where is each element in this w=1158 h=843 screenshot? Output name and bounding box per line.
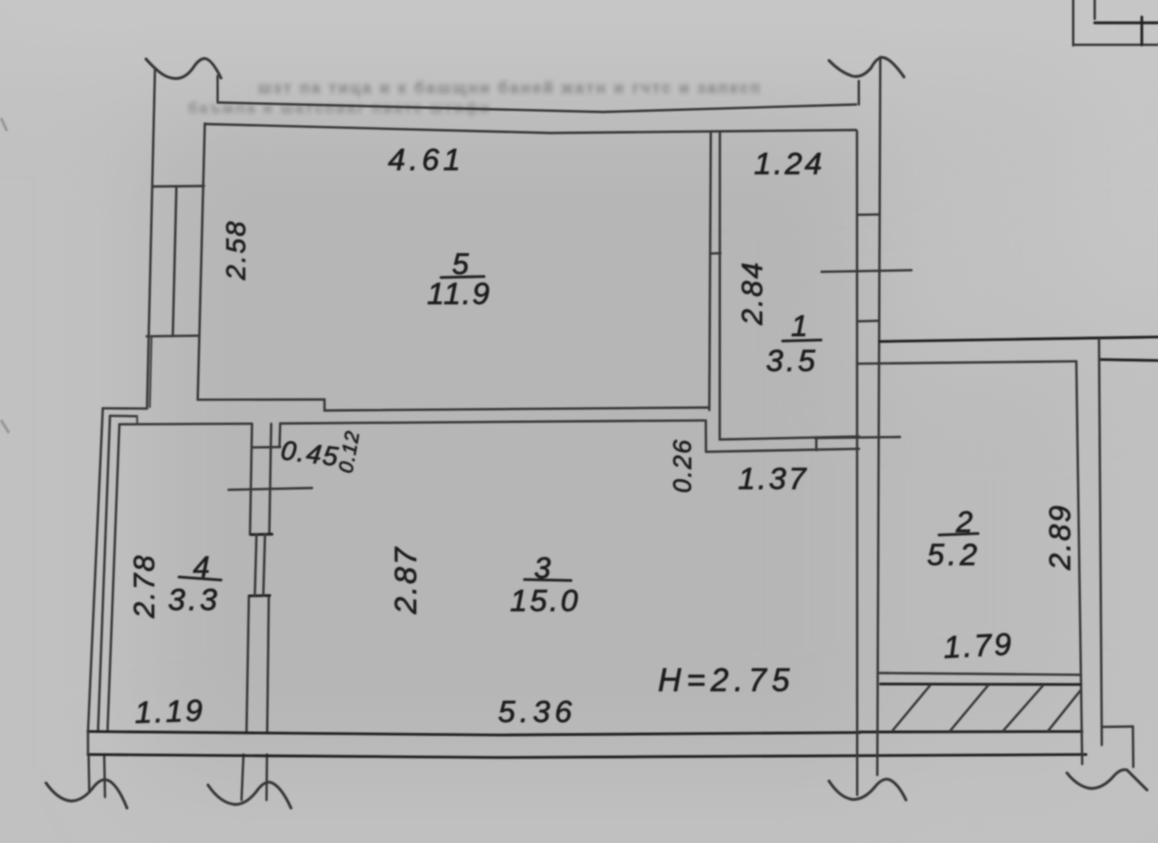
svg-text:3.3: 3.3: [168, 582, 220, 617]
step connector: [136, 416, 138, 424]
svg-text:4.61: 4.61: [388, 142, 464, 177]
second wall line below window: [150, 336, 152, 407]
bottom-mid break squiggle: [208, 782, 291, 808]
top-left break squiggle: [146, 59, 221, 79]
svg-text:2.89: 2.89: [1044, 504, 1077, 571]
step line h2: [110, 415, 137, 418]
room1 bottom wall lower line: [706, 449, 859, 452]
neighbour corner dark tick: [1140, 17, 1143, 45]
hatch diagonal 2: [950, 686, 988, 732]
corridor lower wall left part: [858, 361, 1076, 363]
room4 left middle wall: [98, 416, 110, 732]
svg-text:2.78: 2.78: [129, 554, 161, 619]
neighbour corner line h1: [1095, 21, 1158, 24]
wall room4|room3 left line lower part: [247, 596, 249, 732]
window bottom tick: [147, 335, 200, 338]
corridor upper wall: [880, 337, 1158, 342]
step vertical in bottom wall of room 5: [323, 400, 325, 411]
room 3 underline: [525, 580, 572, 581]
edge smudge mid-left: [1, 420, 9, 433]
wall room4|room3 right line upper part: [269, 424, 271, 535]
svg-text:5.2: 5.2: [927, 537, 981, 572]
room2 right inner wall: [1076, 361, 1082, 764]
left inner wall (room 5): [198, 124, 205, 400]
neighbour corner line v1: [1072, 0, 1074, 46]
right step v: [1132, 727, 1135, 768]
top-right break squiggle: [829, 57, 904, 77]
wall room5|room1 left line: [709, 133, 711, 411]
door line crossing right wall upper: [822, 270, 912, 272]
right wall window tick a: [858, 213, 879, 216]
room4 left outer wall: [88, 408, 103, 731]
svg-text:H=2.75: H=2.75: [658, 662, 795, 698]
wall room4|room3 right line lower part: [267, 596, 269, 732]
door tick lower: [250, 594, 270, 597]
room 5 underline: [441, 277, 484, 278]
divider stub b below bottom wall: [265, 755, 268, 801]
svg-text:2.84: 2.84: [737, 261, 769, 326]
niche vertical: [278, 424, 281, 448]
room4 wall stub a below bottom wall: [87, 755, 90, 793]
svg-text:0.26: 0.26: [669, 438, 697, 493]
room 2 underline: [939, 534, 978, 536]
bottom-left break squiggle: [46, 780, 127, 808]
svg-text:1.24: 1.24: [754, 146, 824, 181]
right wall top stub: [858, 81, 860, 105]
divider stub a below bottom wall: [242, 755, 244, 801]
svg-text:5.36: 5.36: [498, 694, 576, 729]
svg-text:11.9: 11.9: [427, 276, 491, 311]
room 5 bottom wall upper line: [198, 398, 325, 401]
svg-text:шзт па тица и к башщни баней ж: шзт па тица и к башщни баней жатн и гчтс…: [258, 80, 762, 97]
top inner wall (rooms 5 and 1): [205, 124, 856, 133]
svg-text:15.0: 15.0: [510, 583, 580, 618]
door frame line a: [255, 534, 257, 595]
svg-text:1: 1: [791, 310, 808, 343]
room 4 underline: [179, 577, 221, 580]
bottom-right break squiggle: [1067, 770, 1147, 790]
svg-text:2.87: 2.87: [388, 546, 423, 615]
right wall window tick b: [858, 320, 878, 323]
svg-text:3.5: 3.5: [766, 343, 818, 378]
bottom wall left cap: [87, 732, 89, 755]
room2 bottom line: [880, 673, 1080, 675]
mid wall lower line: [280, 420, 704, 423]
room4 top wall: [119, 423, 252, 426]
corridor lower wall right part: [1100, 360, 1158, 361]
hatch diagonal 3: [1003, 686, 1043, 732]
room1 bottom wall upper line: [720, 437, 859, 440]
door tick room1 bottom wall: [815, 438, 817, 451]
hatch diagonal 1: [893, 686, 930, 731]
bottom wall top line right part: [860, 730, 1082, 733]
svg-text:1.37: 1.37: [738, 461, 808, 496]
top-left wall stub: [216, 76, 218, 103]
niche tick: [253, 446, 280, 449]
top outer wall: [218, 103, 856, 113]
svg-text:1.79: 1.79: [943, 626, 1015, 665]
door line crossing right wall lower: [815, 437, 900, 438]
neighbour corner line h2: [1073, 44, 1158, 46]
room 1 underline: [783, 340, 821, 341]
window top tick: [153, 185, 204, 188]
bottom wall top line: [88, 732, 860, 736]
neighbour corner line v2: [1093, 0, 1095, 19]
tick on room5|room1 wall: [710, 252, 721, 255]
step line h1: [103, 407, 147, 410]
edge smudge top-left: [1, 118, 7, 131]
door tick upper: [251, 533, 272, 536]
bottom break squiggle near room2 left wall: [829, 779, 906, 800]
right wall inner line: [856, 131, 859, 795]
room2 right outer wall: [1099, 339, 1102, 745]
room4 left inner wall: [108, 424, 120, 731]
svg-text:1.19: 1.19: [134, 693, 206, 730]
svg-text:2.58: 2.58: [221, 219, 251, 281]
bottom wall bottom line: [88, 755, 1086, 758]
right wall outer line: [877, 57, 880, 775]
door swing line room4: [229, 488, 313, 490]
wall room5|room1 right line: [719, 133, 722, 440]
hatch diagonal 4: [1048, 691, 1080, 731]
window middle line: [173, 186, 177, 336]
room4 wall stub b below bottom wall: [103, 755, 106, 798]
mid wall upper line: [325, 408, 710, 411]
step vertical right of 0.26: [705, 420, 708, 451]
right step h: [1102, 725, 1133, 728]
left outer wall: [147, 68, 155, 409]
balcony hatch top line: [881, 683, 1081, 686]
door frame line b: [263, 534, 265, 595]
wall room4|room3 left line upper part: [250, 424, 252, 535]
